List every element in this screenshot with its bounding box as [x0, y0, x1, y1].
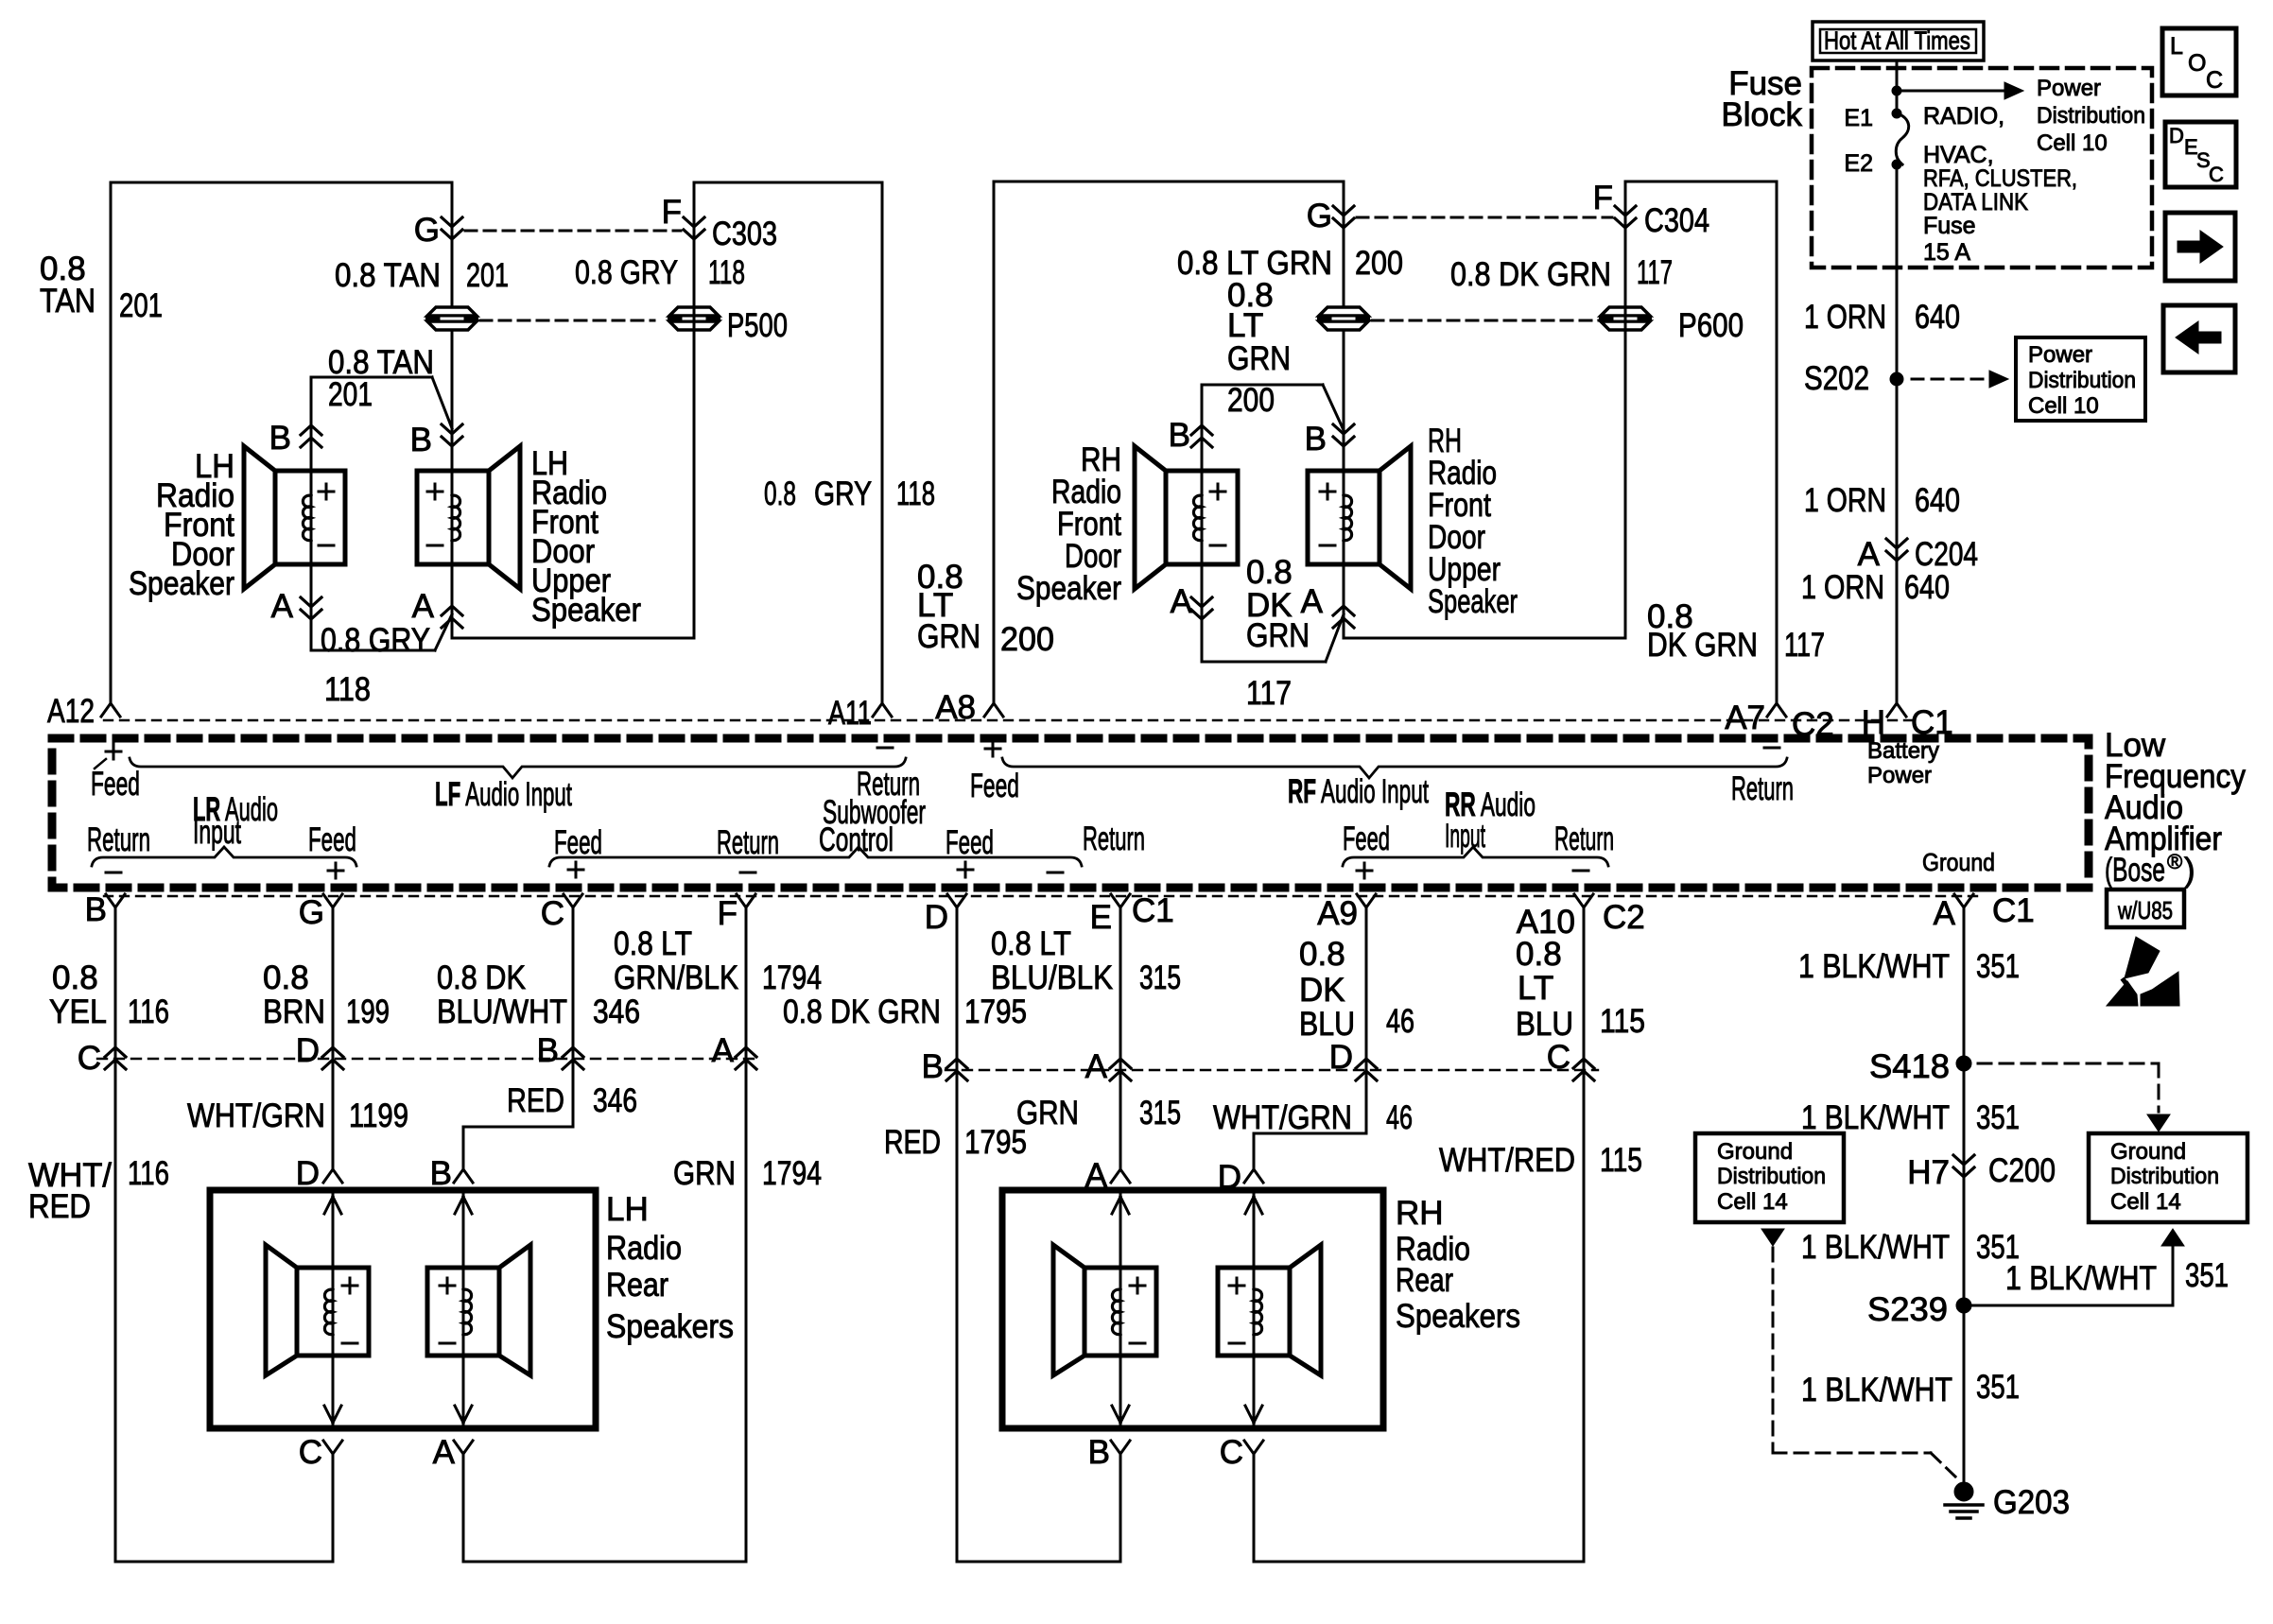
inline connector P600 on G wire [1319, 307, 1368, 316]
svg-text:B: B [1305, 421, 1327, 458]
Hot At All Times box [1813, 22, 1984, 60]
svg-text:200: 200 [1355, 245, 1403, 282]
svg-text:A: A [1171, 583, 1193, 620]
svg-text:0.8 TAN: 0.8 TAN [335, 257, 441, 294]
svg-text:Rear: Rear [606, 1267, 668, 1304]
fuse RADIO 15A terminals E1 E2 [1892, 109, 1901, 118]
svg-text:351: 351 [2185, 1257, 2229, 1294]
svg-text:Radio: Radio [606, 1230, 682, 1267]
svg-text:E2: E2 [1844, 150, 1873, 177]
svg-text:0.8: 0.8 [764, 475, 796, 512]
svg-text:LH: LH [606, 1191, 649, 1228]
connector pin D arrows [322, 1047, 343, 1057]
svg-text:RED: RED [28, 1188, 91, 1225]
svg-text:Return: Return [1731, 770, 1794, 807]
splice S418 [1956, 1056, 1971, 1071]
svg-text:LF Audio Input: LF Audio Input [435, 776, 572, 813]
svg-text:B: B [85, 891, 107, 928]
svg-text:C1: C1 [1992, 892, 2035, 929]
svg-text:A: A [1085, 1048, 1108, 1085]
svg-text:(Bose: (Bose [2105, 852, 2165, 889]
svg-text:Hot At All Times: Hot At All Times [1824, 26, 1970, 55]
svg-text:A: A [271, 588, 294, 625]
svg-text:®: ® [2167, 850, 2182, 873]
svg-text:1 BLK/WHT: 1 BLK/WHT [1801, 1099, 1950, 1136]
wire B drop LH door speaker [310, 377, 313, 471]
svg-text:S239: S239 [1867, 1291, 1948, 1328]
left body connector dashed line [97, 1058, 756, 1060]
svg-text:C304: C304 [1644, 202, 1709, 239]
svg-text:RED: RED [507, 1082, 564, 1119]
splice S239 [1956, 1298, 1971, 1313]
svg-text:Fuse: Fuse [1923, 213, 1976, 239]
connector pin C arrows [105, 1047, 126, 1057]
amp internal plus at A12 [106, 744, 121, 759]
RH Radio Front Door Speaker symbol [1166, 471, 1238, 564]
LH Radio Front Door Upper Speaker symbol [417, 471, 489, 564]
svg-text:Distribution: Distribution [1717, 1164, 1826, 1189]
connector C303 pin G arrows [442, 217, 462, 227]
svg-text:118: 118 [324, 671, 371, 708]
svg-text:A: A [1301, 583, 1324, 620]
wire into box from A right [1119, 1193, 1122, 1428]
svg-text:0.8 DK GRN: 0.8 DK GRN [1450, 256, 1611, 293]
wire from Hot At All Times into fuse block [1896, 60, 1899, 113]
svg-text:1 ORN: 1 ORN [1801, 569, 1884, 606]
svg-text:Feed: Feed [308, 821, 356, 858]
svg-text:0.8 LT: 0.8 LT [614, 925, 692, 962]
svg-text:B: B [922, 1048, 944, 1085]
svg-text:0.8: 0.8 [52, 959, 98, 996]
svg-text:46: 46 [1386, 1003, 1414, 1040]
wire F drop 0.8 GRY 118 [693, 182, 696, 638]
svg-text:A: A [1934, 895, 1956, 932]
wire F drop 0.8 DK GRN 117 [1624, 181, 1627, 638]
svg-text:C2: C2 [1603, 899, 1645, 936]
svg-text:118: 118 [896, 475, 935, 512]
wire 1 BLK/WHT 351 ground main [1963, 909, 1966, 1483]
svg-text:B: B [269, 420, 291, 457]
svg-text:A: A [433, 1434, 456, 1471]
amp bottom pin G [323, 894, 342, 907]
RH Radio Front Door Upper Speaker symbol [1308, 471, 1379, 564]
svg-text:1 BLK/WHT: 1 BLK/WHT [1798, 948, 1950, 985]
pin B arrows LH door speaker [301, 425, 321, 435]
svg-text:B: B [410, 422, 432, 458]
svg-text:Rear: Rear [1396, 1262, 1453, 1299]
wire bottom horizontal to F wire RH [1344, 637, 1625, 640]
svg-text:315: 315 [1139, 1095, 1181, 1132]
amp bottom pin B [106, 894, 125, 907]
svg-text:D: D [296, 1155, 320, 1192]
rear speaker pin D fork right [1244, 1169, 1263, 1183]
connector pin A arrows right [1110, 1059, 1131, 1068]
rear speaker pin C fork [323, 1441, 342, 1454]
svg-text:315: 315 [1139, 959, 1181, 996]
svg-text:1 BLK/WHT: 1 BLK/WHT [1801, 1372, 1952, 1408]
svg-text:A9: A9 [1317, 895, 1358, 932]
svg-text:115: 115 [1600, 1003, 1645, 1040]
dashed connector line G-F C304 [1357, 216, 1612, 219]
svg-text:Input: Input [1445, 818, 1485, 855]
svg-text:GRN/BLK: GRN/BLK [614, 959, 738, 996]
wire RED 346 jog [463, 1126, 573, 1129]
svg-text:0.8 LT: 0.8 LT [991, 925, 1071, 962]
svg-text:G: G [299, 894, 324, 931]
svg-text:Feed: Feed [1343, 821, 1390, 857]
svg-text:Speaker: Speaker [129, 565, 234, 602]
wire A7 riser 0.8 DK GRN 117 [1776, 181, 1778, 701]
svg-text:GRN: GRN [1227, 340, 1291, 377]
svg-text:GRN: GRN [917, 618, 980, 655]
svg-text:D: D [1329, 1039, 1353, 1076]
wire D 0.8 DK GRN 1795 [956, 909, 959, 1562]
wire G 0.8 BRN 199 [332, 909, 335, 1169]
svg-text:GRY: GRY [814, 475, 872, 512]
svg-text:DATA LINK: DATA LINK [1923, 189, 2028, 216]
svg-text:): ) [2184, 852, 2195, 889]
svg-text:Power: Power [2028, 342, 2092, 368]
wire A10 0.8 LT BLU 115 [1583, 909, 1586, 1562]
inline connector P600 on F wire [1601, 307, 1650, 316]
svg-text:0.8 GRY: 0.8 GRY [321, 622, 430, 659]
RH Radio Rear Speakers box [1002, 1190, 1383, 1428]
svg-text:Speakers: Speakers [606, 1308, 734, 1345]
svg-text:1794: 1794 [762, 959, 822, 996]
svg-text:WHT/GRN: WHT/GRN [1213, 1099, 1352, 1136]
wire into box from D right [1253, 1193, 1256, 1428]
svg-text:640: 640 [1915, 482, 1960, 519]
wire B drop RH door speaker [1201, 385, 1204, 471]
rear speaker pin A fork [454, 1441, 473, 1454]
wire B to D amp [1119, 1454, 1122, 1562]
svg-text:Ground: Ground [1922, 848, 1995, 876]
svg-text:L: L [2170, 33, 2183, 60]
wire 0.8 DK GRN 117 jog from RH door speaker [1202, 661, 1326, 664]
dashed branch S418 to ground distribution [1978, 1063, 2159, 1065]
ESD sensitive device symbol [2125, 937, 2160, 978]
right body connector dashed line [946, 1069, 1598, 1071]
wire 0.8 GRY 118 jog from LH door speaker [311, 649, 435, 652]
svg-text:46: 46 [1386, 1099, 1413, 1136]
dashed wire to G203 [1772, 1248, 1775, 1453]
svg-text:DK GRN: DK GRN [1647, 627, 1758, 664]
svg-text:Control: Control [819, 821, 894, 858]
LH rear left speaker symbol [297, 1268, 369, 1356]
svg-text:199: 199 [346, 993, 390, 1030]
svg-text:201: 201 [466, 257, 509, 294]
svg-text:117: 117 [1784, 627, 1825, 664]
amp bottom pin F [737, 894, 755, 907]
wire B 0.8 YEL 116 [114, 909, 117, 1562]
svg-text:C1: C1 [1132, 892, 1174, 929]
svg-text:200: 200 [1227, 382, 1275, 419]
fuse element [1896, 113, 1908, 164]
svg-text:118: 118 [708, 254, 745, 291]
Ground Distribution Cell 14 left box [1695, 1133, 1844, 1222]
svg-text:H: H [1862, 704, 1885, 741]
svg-text:640: 640 [1915, 299, 1960, 336]
svg-text:201: 201 [328, 376, 373, 413]
svg-text:C303: C303 [712, 216, 777, 252]
svg-text:1 ORN: 1 ORN [1804, 299, 1886, 336]
svg-text:Distribution: Distribution [2037, 103, 2145, 129]
svg-text:200: 200 [1000, 621, 1054, 658]
svg-text:TAN: TAN [40, 283, 95, 320]
svg-text:1 BLK/WHT: 1 BLK/WHT [2005, 1260, 2157, 1297]
LOC legend box [2162, 28, 2236, 95]
wire 0.8 TAN 201 jog to LH door speaker [311, 376, 432, 379]
LH Radio Front Door Speaker symbol [275, 471, 345, 564]
LH rear right speaker symbol [427, 1268, 499, 1356]
svg-text:w/U85: w/U85 [2117, 896, 2173, 924]
svg-text:Ground: Ground [2110, 1139, 2186, 1165]
wire F 0.8 LT GRN/BLK 1794 [745, 909, 748, 1562]
svg-text:Feed: Feed [946, 824, 994, 861]
connector C303 pin F arrows [684, 217, 704, 227]
triangle below right ground box [2161, 1229, 2184, 1246]
wU85 box [2107, 890, 2184, 927]
amplifier bottom connector dashed line [104, 895, 1981, 897]
svg-text:Cell 14: Cell 14 [2110, 1189, 2181, 1215]
wire E 0.8 LT BLU/BLK 315 [1119, 909, 1122, 1169]
wire top horizontal F to A7 [1625, 181, 1777, 183]
minus at A7 [1764, 747, 1779, 750]
svg-text:RH: RH [1396, 1195, 1444, 1232]
svg-text:116: 116 [128, 993, 169, 1030]
svg-text:G203: G203 [1993, 1484, 2070, 1521]
dashed line P600 pair [1372, 320, 1600, 322]
svg-text:F: F [1593, 180, 1613, 216]
inline connector P500 on F wire [669, 307, 719, 316]
svg-text:RED: RED [884, 1124, 941, 1161]
Ground Distribution Cell 14 right box [2089, 1133, 2247, 1222]
connector pin D arrows right [1356, 1059, 1377, 1068]
svg-text:A11: A11 [828, 695, 872, 732]
svg-text:Distribution: Distribution [2028, 368, 2136, 393]
svg-text:A12: A12 [47, 693, 95, 730]
svg-text:C: C [1220, 1434, 1243, 1471]
brace LR Audio Input [92, 847, 356, 866]
Fuse Block dashed box [1812, 68, 2152, 268]
amp bottom pin C [564, 894, 582, 907]
brace RF Audio Input [1002, 758, 1787, 778]
svg-text:F: F [662, 194, 682, 231]
exit arrows at box bottom right [1112, 1406, 1129, 1423]
rear speaker pin B fork [454, 1169, 473, 1183]
RH rear left speaker symbol [1084, 1268, 1156, 1356]
svg-text:Return: Return [1083, 821, 1145, 857]
dashed arrow S202 to Power Distribution box [1912, 378, 1984, 381]
svg-text:15 A: 15 A [1923, 239, 1970, 266]
wire from right ground box to S239 [2172, 1246, 2175, 1305]
svg-text:WHT/GRN: WHT/GRN [187, 1097, 325, 1134]
svg-text:BRN: BRN [263, 993, 325, 1030]
right arrow legend box [2165, 213, 2235, 281]
svg-text:C2: C2 [1792, 706, 1834, 743]
amp bottom pin D [947, 894, 966, 907]
connector C204 pin A arrows [1886, 539, 1907, 548]
Power Distribution Cell 10 box [2016, 337, 2145, 421]
rear speaker pin C fork right [1244, 1441, 1263, 1454]
svg-text:C: C [2206, 67, 2223, 94]
svg-text:C: C [299, 1434, 322, 1471]
svg-text:351: 351 [1976, 948, 2020, 985]
svg-text:115: 115 [1600, 1142, 1642, 1179]
minus plus LR [106, 872, 121, 874]
DESC legend box [2165, 122, 2236, 187]
svg-text:Speaker: Speaker [1428, 583, 1518, 620]
svg-text:G: G [1307, 198, 1332, 234]
connector C304 pin G arrows [1333, 206, 1354, 216]
wire C to A10 amp [1253, 1454, 1256, 1562]
connector C200 pin H7 arrows [1953, 1155, 1974, 1165]
svg-text:D: D [925, 899, 948, 936]
pin A arrows RH door speaker [1201, 564, 1204, 662]
brace LF Audio Input [130, 758, 906, 778]
wire A8 riser 0.8 LT GRN 200 [993, 181, 996, 701]
pin A arrows LH upper speaker [451, 564, 454, 638]
svg-text:Ground: Ground [1717, 1139, 1793, 1165]
svg-text:117: 117 [1246, 675, 1292, 712]
wire into box from B [462, 1193, 465, 1428]
svg-text:1 ORN: 1 ORN [1804, 482, 1886, 519]
svg-text:Cell 10: Cell 10 [2037, 130, 2108, 156]
connector pin C arrows right [1573, 1059, 1594, 1068]
svg-text:0.8: 0.8 [1516, 936, 1562, 973]
ground G203 [1954, 1482, 1973, 1501]
wire 1 ORN 640 from fuse to amp [1896, 164, 1899, 701]
minus at A11 [877, 747, 893, 750]
brace RR Audio Input [1343, 847, 1608, 866]
dashed line P500 pair [480, 320, 654, 322]
svg-text:BLU/BLK: BLU/BLK [991, 959, 1113, 996]
svg-text:1 BLK/WHT: 1 BLK/WHT [1801, 1229, 1950, 1266]
brace subwoofer span [549, 847, 1082, 866]
svg-text:YEL: YEL [49, 993, 107, 1030]
wire into box from D [332, 1193, 335, 1428]
svg-text:201: 201 [119, 287, 163, 324]
svg-text:Block: Block [1721, 96, 1802, 133]
wire G drop 0.8 TAN 201 [451, 182, 454, 471]
wire A9 0.8 DK BLU 46 [1365, 909, 1368, 1133]
connector pin A arrows [736, 1047, 756, 1057]
svg-text:D: D [2169, 124, 2184, 147]
svg-text:LT: LT [1518, 970, 1553, 1007]
splice S202 [1890, 372, 1903, 386]
connector C304 pin F arrows [1615, 206, 1636, 216]
rear speaker pin D fork [323, 1169, 342, 1183]
wire A12 riser 0.8 TAN 201 [110, 182, 113, 701]
plus at A8 [985, 741, 1000, 756]
dashed connector line G-F C303 [465, 230, 681, 233]
wire 0.8 LT GRN 200 jog to RH door speaker [1202, 384, 1323, 387]
svg-text:346: 346 [593, 1082, 637, 1119]
svg-text:C: C [78, 1040, 101, 1077]
svg-text:A: A [712, 1032, 735, 1069]
wire C 0.8 DK BLU/WHT 346 [572, 909, 575, 1127]
wire WHT/GRN 46 jog [1254, 1132, 1366, 1135]
exit arrows at box bottom [324, 1406, 341, 1423]
svg-text:Return: Return [87, 821, 150, 858]
pin B arrows LH upper speaker [442, 424, 462, 434]
svg-text:H7: H7 [1907, 1154, 1950, 1191]
svg-text:Feed: Feed [91, 766, 140, 803]
svg-text:Power: Power [1867, 763, 1932, 788]
svg-text:640: 640 [1904, 569, 1950, 606]
svg-text:351: 351 [1976, 1369, 2020, 1406]
svg-text:HVAC,: HVAC, [1923, 142, 1994, 168]
amp bottom pin A9 [1357, 894, 1376, 907]
svg-text:0.8 DK: 0.8 DK [437, 959, 526, 996]
svg-text:117: 117 [1637, 254, 1673, 291]
svg-text:Speaker: Speaker [531, 592, 641, 629]
svg-text:Speaker: Speaker [1016, 570, 1121, 607]
svg-text:Distribution: Distribution [2110, 1164, 2219, 1189]
svg-text:Speakers: Speakers [1396, 1298, 1520, 1335]
triangle below left ground box [1761, 1229, 1784, 1246]
svg-text:C200: C200 [1988, 1152, 2056, 1189]
svg-text:E1: E1 [1844, 105, 1873, 131]
arrow to Power Distribution Cell 10 [1897, 90, 2004, 93]
svg-text:GRN: GRN [1016, 1095, 1079, 1132]
svg-text:C: C [2209, 163, 2224, 186]
svg-text:BLU: BLU [1516, 1006, 1573, 1043]
svg-text:A: A [412, 588, 435, 625]
svg-text:0.8: 0.8 [1246, 554, 1293, 591]
connector pin B arrows right [946, 1059, 967, 1068]
svg-text:B: B [1169, 417, 1190, 454]
svg-text:1795: 1795 [964, 993, 1027, 1030]
inline connector P500 on G wire [427, 307, 477, 316]
svg-text:O: O [2188, 50, 2206, 77]
svg-text:116: 116 [128, 1155, 169, 1192]
amp bottom pin A10 C2 [1574, 894, 1593, 907]
svg-text:Return: Return [717, 824, 779, 861]
left arrow legend box [2163, 305, 2235, 372]
wire C to B amp [332, 1454, 335, 1562]
svg-text:F: F [718, 895, 737, 932]
amplifier top connector dashed line [104, 719, 1919, 721]
svg-text:BLU: BLU [1299, 1006, 1355, 1043]
pin B arrows RH upper speaker [1333, 424, 1354, 434]
svg-text:S202: S202 [1804, 360, 1869, 397]
svg-text:RF Audio Input: RF Audio Input [1288, 773, 1429, 810]
svg-text:LT: LT [1227, 307, 1263, 344]
svg-text:B: B [430, 1155, 452, 1192]
wire top horizontal A12 to G [111, 181, 452, 184]
svg-text:B: B [537, 1032, 559, 1069]
pin B arrows RH door speaker [1191, 425, 1212, 435]
svg-text:A7: A7 [1725, 700, 1765, 736]
pin A arrows RH upper speaker [1343, 564, 1345, 638]
amp bottom pin A C1 [1954, 894, 1973, 907]
rear speaker pin A fork right [1111, 1169, 1130, 1183]
svg-text:Power: Power [2037, 76, 2101, 101]
svg-text:1199: 1199 [349, 1097, 408, 1134]
wire G drop 0.8 LT GRN 200 [1343, 181, 1345, 471]
svg-text:1794: 1794 [762, 1155, 822, 1192]
amp bottom pin E C1 [1111, 894, 1130, 907]
svg-text:RADIO,: RADIO, [1923, 103, 2004, 130]
rear speaker pin B fork right [1111, 1441, 1130, 1454]
Low Frequency Audio Amplifier dashed box [52, 738, 2089, 888]
svg-text:0.8: 0.8 [263, 959, 309, 996]
svg-text:Battery: Battery [1867, 738, 1939, 764]
svg-text:Input: Input [193, 814, 241, 851]
svg-text:C: C [1547, 1039, 1570, 1076]
wire top horizontal A8 to G [994, 181, 1344, 183]
